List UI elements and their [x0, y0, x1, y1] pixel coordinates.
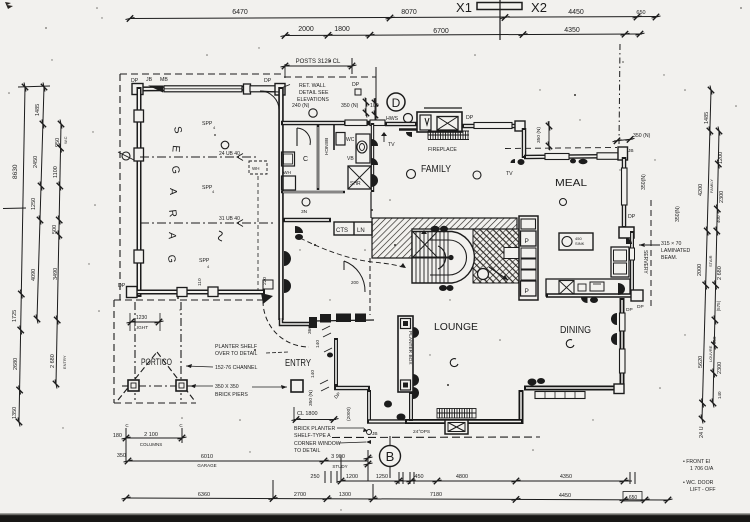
bottom dims row B (6010 garage / 3900 study) [124, 450, 373, 481]
garage beam line 31 UB 40 [140, 216, 274, 227]
svg-text:240 (N): 240 (N) [292, 103, 310, 109]
svg-text:FAMILY: FAMILY [709, 179, 714, 193]
hatched floor band above stair [372, 218, 517, 258]
svg-text:4350: 4350 [560, 474, 572, 480]
svg-text:350 (N): 350 (N) [536, 127, 542, 143]
svg-text:WH: WH [252, 166, 260, 171]
dashed wall line entry-lounge [369, 258, 371, 315]
top dim line 2 ticks [281, 32, 290, 38]
staircase [412, 230, 474, 283]
svg-text:2680: 2680 [13, 358, 19, 370]
top dimension line 1 [130, 17, 658, 19]
svg-text:1350: 1350 [12, 407, 18, 419]
svg-text:31 UB 40: 31 UB 40 [219, 216, 240, 222]
shower [348, 166, 371, 189]
svg-text:STUDY: STUDY [332, 464, 347, 469]
svg-text:1800: 1800 [334, 26, 350, 33]
bottom dims row B2 (250/1200/1250/450/4800/4350) [325, 471, 635, 484]
fireplace hearth comb [428, 131, 469, 140]
svg-text:140: 140 [717, 391, 722, 399]
svg-text:A: A [167, 188, 179, 195]
top dimension line 2 [285, 34, 642, 36]
wall left of fireplace [399, 128, 417, 130]
dining east wall [620, 298, 626, 390]
svg-text:950: 950 [55, 138, 61, 147]
hall door blobs [295, 226, 303, 233]
svg-text:D: D [392, 96, 401, 110]
svg-text:350 (N): 350 (N) [633, 133, 651, 139]
pantry column [519, 216, 538, 300]
svg-text:GARAGE: GARAGE [197, 463, 216, 468]
servery east wall [630, 231, 635, 296]
meal east wall [622, 157, 628, 228]
entry door arc [263, 301, 309, 347]
svg-text:1250: 1250 [376, 474, 388, 480]
svg-text:650: 650 [629, 495, 638, 501]
dining north wall [546, 290, 643, 301]
light dim [127, 313, 164, 331]
svg-text:1100: 1100 [53, 166, 59, 178]
planter shrubs [413, 327, 419, 338]
svg-text:4450: 4450 [568, 9, 584, 16]
family north wall right of fireplace [462, 121, 525, 131]
svg-text:(2000): (2000) [346, 407, 352, 421]
svg-text:ENTRY: ENTRY [285, 357, 311, 369]
svg-text:STAIR: STAIR [708, 255, 713, 267]
svg-text:B: B [386, 449, 395, 464]
svg-text:LOUNGE: LOUNGE [434, 321, 478, 333]
svg-text:WH: WH [283, 170, 292, 176]
svg-text:BRICK PLANTER: BRICK PLANTER [294, 426, 335, 432]
grid dash line right (650 offset) [619, 44, 620, 144]
kitchen south bench [546, 279, 630, 296]
svg-text:450: 450 [414, 474, 423, 480]
svg-text:650: 650 [636, 10, 645, 16]
right 350(N) annotations [633, 133, 691, 261]
planter shelf annotation [215, 344, 257, 398]
svg-text:400: 400 [716, 215, 721, 223]
svg-text:G: G [169, 165, 182, 174]
svg-text:TV: TV [388, 142, 395, 148]
top dim labels [232, 9, 645, 35]
bathroom block top wall [281, 120, 417, 126]
svg-text:DETAIL SEE: DETAIL SEE [299, 90, 329, 96]
bottom dims row A (columns 2100) [122, 428, 187, 461]
left dim chain 1 (8630/1725/2680/1350) [3, 83, 50, 427]
svg-text:CL 1800: CL 1800 [297, 411, 318, 417]
column circle on left wall [122, 152, 130, 160]
svg-text:RET. WALL: RET. WALL [299, 83, 326, 89]
svg-text:3490: 3490 [53, 268, 59, 280]
svg-text:P: P [525, 288, 529, 295]
right dim chain inner [713, 131, 719, 403]
island bench with sink [559, 233, 593, 250]
meal north wall [524, 147, 628, 160]
hall bottom wall [283, 218, 331, 223]
svg-text:SHR: SHR [350, 181, 361, 187]
svg-text:3N: 3N [301, 209, 308, 215]
section marker X1 X2 [456, 0, 547, 40]
svg-text:6700: 6700 [433, 28, 449, 35]
svg-text:• WC. DOOR: • WC. DOOR [683, 480, 714, 486]
svg-text:SPP: SPP [202, 121, 213, 127]
svg-text:COLUMNS: COLUMNS [140, 442, 163, 447]
svg-text:3 900: 3 900 [331, 454, 345, 460]
svg-text:1200: 1200 [346, 474, 358, 480]
svg-text:WC: WC [346, 137, 355, 143]
svg-text:7180: 7180 [430, 492, 442, 498]
svg-text:350: 350 [117, 453, 126, 459]
meal east corner block [619, 227, 634, 238]
bottom scan band [0, 515, 750, 522]
posts area right edge line [375, 67, 377, 122]
svg-text:4800: 4800 [456, 474, 468, 480]
svg-text:6010: 6010 [201, 454, 213, 460]
svg-text:LIGHT: LIGHT [134, 325, 148, 331]
svg-text:A: A [166, 232, 178, 239]
svg-text:180: 180 [113, 433, 122, 439]
grid bubble B [380, 446, 401, 467]
hall circle + 3N [302, 198, 310, 206]
svg-text:HWS: HWS [386, 116, 399, 122]
bottom dims row C (6360/2700/1300/7180/4450/650) [122, 480, 673, 503]
svg-text:1485: 1485 [704, 112, 710, 124]
svg-text:LOUVRE: LOUVRE [708, 345, 713, 362]
entry pier [291, 380, 303, 392]
study south wall [367, 419, 407, 424]
dining window seat [535, 392, 585, 399]
lounge window box with X [445, 420, 468, 434]
dashed eave line bottom [332, 436, 540, 439]
svg-text:FAMILY: FAMILY [421, 164, 451, 175]
svg-text:350(N): 350(N) [641, 174, 647, 190]
brick planter annotation [294, 426, 341, 454]
closet cupboard boxes [282, 152, 295, 166]
garage left wall [134, 87, 144, 297]
svg-text:BRICK PIERS: BRICK PIERS [215, 392, 248, 398]
svg-text:BEAM.: BEAM. [661, 255, 677, 261]
svg-text:JB: JB [372, 431, 378, 437]
svg-text:250: 250 [310, 474, 319, 480]
svg-text:140: 140 [310, 370, 316, 378]
svg-text:2450: 2450 [33, 156, 39, 168]
lounge south wall [405, 419, 523, 424]
svg-text:JB: JB [146, 77, 153, 83]
svg-text:350: 350 [712, 336, 717, 344]
door blobs family SE corner [511, 159, 516, 163]
svg-text:DP: DP [626, 307, 633, 313]
svg-text:TV: TV [506, 171, 513, 177]
svg-text:200: 200 [351, 280, 359, 285]
kitchen floor waste circle [478, 269, 489, 280]
lounge bay window comb [437, 409, 476, 419]
svg-text:1300: 1300 [339, 492, 351, 498]
closet C door arc [297, 128, 310, 145]
stair landing X [413, 232, 437, 257]
top dim line 1 ticks [126, 15, 135, 21]
svg-text:350(N): 350(N) [675, 206, 681, 222]
svg-text:24°DPS: 24°DPS [413, 429, 430, 435]
svg-text:POSTS 3120 CL: POSTS 3120 CL [296, 59, 341, 65]
svg-text:4450: 4450 [559, 493, 571, 499]
top-left ink mark [5, 2, 13, 9]
door blobs on bathroom right wall [371, 139, 378, 146]
svg-text:2700: 2700 [294, 492, 306, 498]
svg-text:360: 360 [307, 326, 313, 334]
svg-text:8630: 8630 [12, 164, 19, 179]
stair inner U rail [438, 246, 446, 269]
svg-text:SHELF-TYPE A: SHELF-TYPE A [294, 433, 331, 439]
svg-text:8070: 8070 [401, 9, 417, 16]
svg-text:ENTRY: ENTRY [62, 355, 67, 369]
svg-text:DP: DP [264, 78, 272, 84]
bathroom bottom wall [281, 191, 345, 194]
svg-text:350 (N): 350 (N) [341, 103, 359, 109]
servery counter [611, 247, 629, 277]
svg-text:1250: 1250 [31, 198, 37, 210]
hall-lounge door arc [344, 261, 365, 292]
dining east shrubs [618, 283, 625, 295]
svg-text:152-76 CHANNEL: 152-76 CHANNEL [215, 365, 257, 371]
svg-text:4090: 4090 [31, 269, 37, 281]
svg-text:1725: 1725 [12, 310, 18, 322]
kitchen arrow [489, 267, 508, 280]
planter box [398, 316, 413, 392]
posts dim [281, 58, 357, 74]
svg-text:LIFT - OFF: LIFT - OFF [690, 487, 716, 493]
entry east wall [334, 338, 338, 386]
svg-text:2 680: 2 680 [717, 266, 723, 280]
kitchen small boxes [504, 248, 519, 259]
svg-text:DP: DP [637, 304, 644, 310]
svg-text:140: 140 [315, 340, 321, 348]
tick marks left of family (TV point) [383, 133, 385, 142]
small circle in garage [221, 141, 229, 149]
svg-text:2300: 2300 [719, 191, 725, 203]
svg-text:BENCH: BENCH [323, 138, 329, 155]
svg-text:DP: DP [352, 82, 360, 88]
wc partition [333, 125, 335, 150]
small squiggle in garage [218, 231, 222, 241]
portico piers [128, 380, 139, 391]
dashed walk line to stair [300, 238, 406, 268]
svg-text:350 X 350: 350 X 350 [215, 384, 239, 390]
top wall labels DP JB MB [118, 77, 272, 289]
entry side dims rotated [307, 326, 352, 421]
svg-text:W.C: W.C [63, 136, 68, 144]
svg-text:4200: 4200 [698, 184, 704, 196]
kitchen tiled floor cross hatch [473, 229, 519, 283]
vanity bench [356, 134, 370, 163]
svg-text:X2: X2 [531, 0, 547, 15]
svg-text:2 100: 2 100 [144, 432, 158, 438]
svg-text:SINK: SINK [575, 241, 585, 246]
svg-text:CORNER WINDOW: CORNER WINDOW [294, 441, 341, 447]
svg-text:24 U: 24 U [699, 426, 705, 438]
svg-text:2000: 2000 [697, 264, 703, 276]
study east wall [367, 390, 371, 423]
svg-text:110: 110 [197, 278, 203, 286]
left dim chain 2 (1485/2450/1250/4090) [34, 83, 47, 324]
svg-text:DP: DP [131, 78, 139, 84]
svg-text:DP: DP [466, 115, 474, 121]
svg-text:1230: 1230 [136, 315, 147, 321]
grid bubble D [387, 93, 405, 111]
svg-text:CTS: CTS [336, 228, 348, 234]
stair treads upper flight [416, 232, 448, 258]
svg-text:6470: 6470 [232, 9, 248, 16]
svg-text:LN: LN [357, 228, 365, 234]
svg-text:DP: DP [118, 283, 126, 289]
dashed line right of servery [650, 200, 652, 310]
eave dashed outline garage [120, 74, 376, 300]
ink blob study [384, 401, 392, 408]
step wall between lounge and dining [519, 390, 524, 424]
dashed support line x258 [257, 176, 259, 290]
bench wall vertical [317, 125, 320, 190]
svg-text:DINING: DINING [560, 325, 591, 336]
stair mid rail [412, 257, 452, 259]
lounge west wall lower [409, 392, 413, 421]
svg-text:P: P [525, 238, 529, 245]
svg-text:C: C [303, 156, 308, 163]
svg-text:MEAL: MEAL [555, 178, 588, 189]
garage right wall / entry west wall [278, 87, 284, 320]
svg-text:G: G [165, 254, 178, 263]
svg-text:JB: JB [628, 148, 634, 154]
study north wall [334, 386, 370, 391]
svg-text:E: E [169, 145, 182, 153]
svg-text:2300: 2300 [717, 362, 723, 374]
svg-text:1200: 1200 [718, 152, 724, 164]
svg-text:DP: DP [628, 214, 636, 220]
svg-text:• FRONT El: • FRONT El [683, 459, 710, 465]
svg-text:VB: VB [347, 156, 354, 162]
svg-text:OVER TO DETAIL: OVER TO DETAIL [215, 351, 257, 357]
entry west wall shrubs [284, 251, 291, 266]
svg-text:PORTICO: PORTICO [141, 357, 172, 368]
stair treads lower flight [416, 258, 448, 283]
svg-text:315 × 70: 315 × 70 [661, 241, 681, 247]
wc cistern box [336, 133, 345, 146]
ret wall annotation block [292, 82, 379, 109]
posts dim left riser [284, 64, 286, 78]
svg-text:6360: 6360 [198, 492, 210, 498]
svg-text:4350: 4350 [564, 27, 580, 34]
svg-text:350 (N): 350 (N) [308, 390, 314, 406]
toilet [357, 141, 367, 153]
SPP marks [199, 121, 216, 269]
svg-text:PLANTER SHELF: PLANTER SHELF [215, 344, 257, 350]
right side notes [683, 459, 716, 493]
svg-text:24 UB 40: 24 UB 40 [219, 151, 240, 157]
svg-text:X1: X1 [456, 0, 472, 15]
stair bottom blobs [439, 285, 447, 291]
CTS LN boxes [334, 222, 372, 235]
bathroom right wall [371, 123, 374, 192]
svg-text:2000: 2000 [298, 26, 314, 33]
dining south wall [524, 384, 624, 394]
svg-text:1 706 O/A: 1 706 O/A [690, 466, 714, 472]
family/meal step wall vertical [522, 128, 527, 158]
left dim chain 3 (950/1100/500/3490/2680 entry) [53, 120, 64, 389]
garage room label (vertical letters) [165, 125, 184, 263]
svg-text:5620: 5620 [698, 356, 704, 368]
svg-text:FIREPLACE: FIREPLACE [428, 147, 457, 153]
garage beam line 24 UB 40 [140, 151, 256, 161]
svg-text:PLANTER BOX: PLANTER BOX [407, 331, 413, 365]
svg-text:MB: MB [160, 77, 168, 83]
svg-text:TO DETAIL: TO DETAIL [294, 448, 320, 454]
stair top blobs [431, 226, 440, 232]
right dim chain outer [699, 86, 722, 424]
svg-text:SERVERY: SERVERY [642, 250, 648, 274]
portico [114, 300, 265, 403]
garage door swing arc top-right [260, 91, 279, 110]
svg-text:2 680: 2 680 [50, 354, 56, 368]
svg-text:LAMINATED: LAMINATED [661, 248, 691, 254]
entry north wall with corner window [281, 314, 374, 329]
svg-text:500: 500 [52, 225, 58, 234]
fireplace [417, 108, 462, 132]
svg-text:1485: 1485 [35, 104, 41, 116]
svg-text:|575|: |575| [716, 301, 721, 311]
garage bottom wall [127, 287, 274, 305]
garage top wall [132, 84, 285, 96]
WH dashed box in garage [249, 161, 267, 174]
